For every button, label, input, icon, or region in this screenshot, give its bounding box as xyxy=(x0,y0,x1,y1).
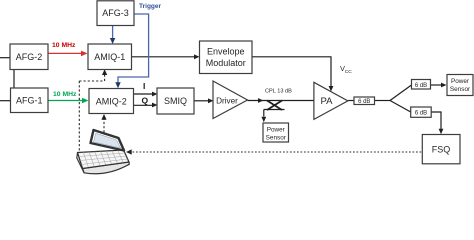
svg-text:Power: Power xyxy=(267,127,286,134)
svg-text:Sensor: Sensor xyxy=(266,135,287,142)
svg-text:AMIQ-1: AMIQ-1 xyxy=(94,52,125,62)
svg-text:AFG-2: AFG-2 xyxy=(16,52,43,62)
svg-text:Modulator: Modulator xyxy=(206,58,246,68)
svg-text:CC: CC xyxy=(345,69,352,75)
svg-text:10 MHz: 10 MHz xyxy=(53,91,77,98)
svg-text:SMIQ: SMIQ xyxy=(164,96,187,106)
svg-text:Envelope: Envelope xyxy=(207,47,245,57)
svg-text:Driver: Driver xyxy=(216,96,238,105)
svg-text:CPL 13 dB: CPL 13 dB xyxy=(265,89,292,95)
svg-text:AFG-3: AFG-3 xyxy=(102,8,129,18)
svg-text:Power: Power xyxy=(451,78,470,85)
svg-text:Trigger: Trigger xyxy=(139,3,162,10)
svg-text:I: I xyxy=(143,81,145,91)
svg-text:Sensor: Sensor xyxy=(450,86,471,93)
svg-text:FSQ: FSQ xyxy=(432,144,451,154)
svg-text:AMIQ-2: AMIQ-2 xyxy=(96,96,127,106)
svg-text:6 dB: 6 dB xyxy=(358,99,370,105)
svg-text:AFG-1: AFG-1 xyxy=(16,95,43,105)
svg-text:6 dB: 6 dB xyxy=(415,111,427,117)
svg-text:6 dB: 6 dB xyxy=(415,83,427,89)
svg-text:Q: Q xyxy=(142,96,149,106)
svg-text:PA: PA xyxy=(321,96,334,107)
svg-text:10 MHz: 10 MHz xyxy=(52,42,76,49)
